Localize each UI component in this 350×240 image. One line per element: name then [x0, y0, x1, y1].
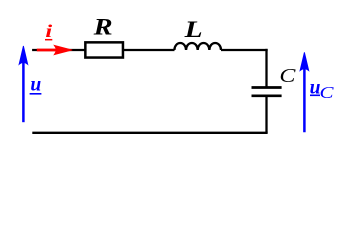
svg-text:L: L — [183, 17, 202, 42]
inductor L — [174, 43, 221, 50]
wire right vertical upper — [265, 49, 267, 88]
svg-text:C: C — [320, 83, 335, 102]
wire right vertical lower — [265, 96, 267, 133]
underline of i — [45, 39, 52, 41]
wire L to right corner — [221, 49, 268, 51]
voltage arrow uC — [300, 52, 309, 132]
wire top left segment — [32, 49, 85, 51]
capacitor C — [252, 88, 282, 96]
svg-text:C: C — [279, 65, 296, 87]
svg-text:i: i — [45, 21, 52, 41]
wire bottom — [32, 132, 267, 134]
wire between R and L — [123, 49, 174, 51]
current arrow i — [37, 45, 72, 54]
svg-text:u: u — [30, 75, 41, 96]
voltage arrow u — [19, 46, 28, 122]
resistor R — [85, 42, 123, 57]
underline of u — [30, 93, 42, 95]
underline of uC — [310, 94, 320, 96]
svg-text:R: R — [92, 14, 112, 39]
